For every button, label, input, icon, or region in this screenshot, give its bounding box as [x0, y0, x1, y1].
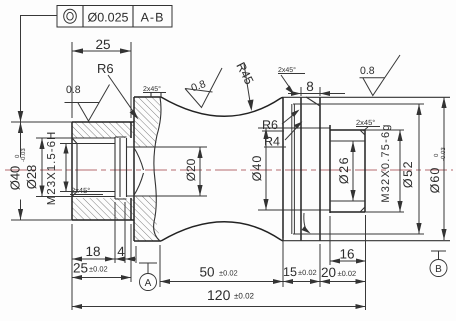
fillet leader bottom right — [304, 213, 308, 232]
svg-text:A: A — [145, 278, 152, 289]
chamfer label 2x45 left flange — [143, 86, 166, 93]
thread minor / bore lines right — [330, 141, 365, 201]
svg-text:2x45°: 2x45° — [71, 186, 90, 195]
part outline: left hub — [72, 122, 134, 220]
right flange — [301, 97, 320, 240]
dim 25±0.02 — [72, 261, 131, 281]
left hub bore lines — [72, 138, 115, 197]
svg-text:M23X1.5-6H: M23X1.5-6H — [46, 131, 58, 206]
svg-text:M32X0.75-6g: M32X0.75-6g — [380, 123, 392, 202]
svg-text:18: 18 — [85, 244, 100, 259]
right flange top/bottom edges + Ø60 ext — [283, 97, 450, 240]
dim Ø20 — [184, 147, 203, 196]
dim M23X1.5-6H — [46, 131, 77, 206]
chamfer ticks at drum left — [151, 92, 161, 97]
chamfer label 2x45 drum right rim — [278, 67, 305, 95]
R6 label right — [262, 110, 300, 133]
hatch drum left flange upper — [134, 97, 160, 147]
dim 120±0.02 — [72, 287, 366, 309]
feature control frame — [57, 6, 172, 28]
dim 20±0.02 — [320, 265, 366, 284]
flange corner diagonal — [306, 97, 320, 106]
svg-text:B: B — [435, 264, 442, 275]
dim Ø60 — [428, 97, 447, 240]
dim 16 — [330, 247, 366, 264]
frame leader — [21, 16, 58, 123]
svg-text:Ø60: Ø60 — [428, 167, 442, 194]
drum bottom concave arc — [161, 222, 281, 241]
thread minor rect M23 — [77, 144, 115, 192]
dim Ø52 — [401, 104, 422, 234]
svg-text:Ø52: Ø52 — [401, 160, 415, 188]
end chamfers — [360, 130, 365, 212]
svg-text:R6: R6 — [262, 118, 278, 132]
svg-text:±0.02: ±0.02 — [338, 269, 357, 278]
R6 top-left label — [97, 61, 139, 120]
datum B — [430, 251, 447, 277]
hole Ø20 lines — [127, 147, 208, 196]
svg-text:0.8: 0.8 — [360, 65, 375, 77]
svg-text:25: 25 — [95, 37, 110, 52]
datum A — [139, 263, 157, 291]
hatch drum left flange lower — [134, 196, 159, 241]
svg-text:Ø26: Ø26 — [337, 156, 351, 184]
thread relief groove — [115, 137, 127, 199]
svg-text:20: 20 — [321, 265, 336, 280]
svg-text:±0.02: ±0.02 — [298, 268, 317, 277]
svg-text:±0.02: ±0.02 — [89, 265, 108, 274]
svg-text:120: 120 — [207, 287, 231, 303]
drum top concave arc — [161, 97, 281, 116]
flange top/bottom flats — [134, 97, 161, 241]
R4 label right — [264, 122, 303, 149]
roughness 0.8 on arc (rotated) — [185, 68, 222, 108]
hub right face — [130, 122, 132, 220]
dim Ø40 left — [8, 122, 73, 220]
bore entrance chamfer — [72, 138, 77, 197]
dim 18 — [72, 244, 136, 262]
thread M32 section — [330, 125, 365, 213]
svg-text:±0.02: ±0.02 — [219, 269, 238, 278]
neck lines — [258, 128, 330, 210]
svg-text:2x45°: 2x45° — [143, 86, 161, 93]
dim 50±0.02 — [160, 265, 283, 285]
dim 15±0.02 — [283, 265, 320, 284]
hatch left hub top band — [72, 122, 134, 138]
svg-text:0.8: 0.8 — [66, 84, 81, 96]
drum face second line — [292, 104, 295, 234]
svg-text:25: 25 — [73, 261, 88, 276]
svg-text:8: 8 — [306, 79, 314, 94]
dim Ø40 right (neck) — [250, 128, 269, 210]
wavy break line — [154, 97, 161, 241]
svg-text:2x45°: 2x45° — [278, 67, 296, 74]
svg-text:Ø40: Ø40 — [250, 155, 264, 182]
svg-text:R6: R6 — [97, 61, 114, 76]
svg-text:Ø0.025: Ø0.025 — [87, 11, 128, 25]
drum left flange face — [133, 97, 135, 241]
svg-text:50: 50 — [200, 265, 215, 280]
R45 label (rotated along leader) — [233, 60, 256, 111]
dim M32X0.75-6g — [365, 123, 404, 212]
chamfer label 2x45 right end — [356, 118, 380, 131]
dim 4 — [115, 244, 135, 262]
bottom extension lines — [72, 202, 366, 310]
svg-text:16: 16 — [339, 247, 354, 262]
drum right face — [281, 97, 283, 241]
roughness 0.8 above right end — [360, 55, 401, 96]
svg-text:4: 4 — [117, 244, 125, 259]
dim Ø26 — [337, 141, 356, 201]
concentricity symbol — [64, 9, 77, 23]
svg-text:Ø40: Ø40 — [8, 166, 23, 191]
svg-text:A-B: A-B — [141, 11, 165, 25]
dim 25 top — [72, 37, 131, 118]
svg-text:15: 15 — [283, 265, 297, 279]
svg-text:Ø28: Ø28 — [24, 165, 39, 190]
svg-text:-0.03: -0.03 — [440, 147, 447, 161]
centerline (red dashed axis) — [5, 169, 453, 171]
dim Ø28 — [24, 138, 72, 197]
svg-text:±0.02: ±0.02 — [234, 292, 255, 301]
svg-text:Ø20: Ø20 — [184, 158, 198, 181]
svg-text:-0.03: -0.03 — [20, 148, 27, 162]
chamfer label 2x45 in bore — [70, 186, 103, 195]
roughness 0.8 top-left — [65, 84, 110, 121]
dim 8 flange width — [288, 79, 345, 96]
svg-text:2x45°: 2x45° — [356, 118, 375, 127]
hatch left hub bottom band — [72, 198, 134, 220]
Ø52 extension lines — [293, 104, 424, 234]
